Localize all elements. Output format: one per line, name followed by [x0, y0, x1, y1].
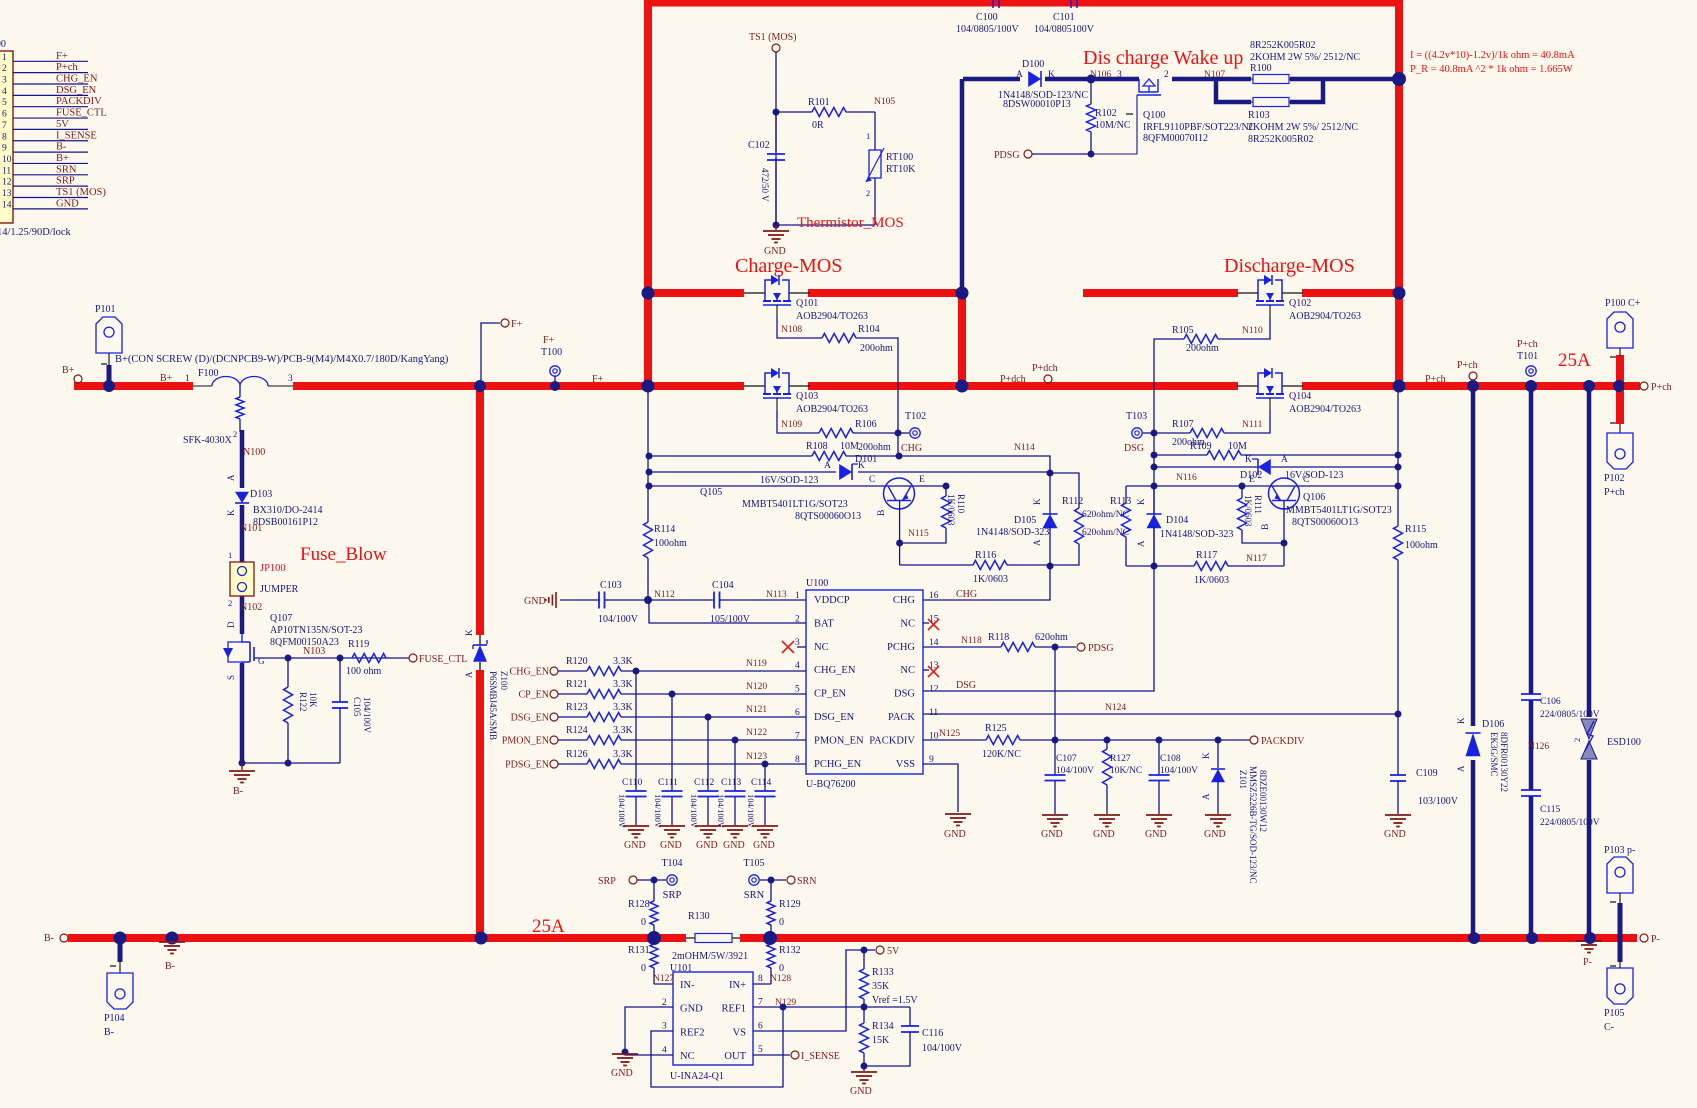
svg-text:R101: R101	[808, 97, 830, 108]
diode Z101 zener MMSZ5226B	[1217, 740, 1219, 768]
svg-text:5V: 5V	[56, 119, 69, 130]
capacitor C102 472/50V	[775, 112, 777, 152]
svg-text:8: 8	[758, 974, 763, 984]
svg-text:N125: N125	[939, 729, 960, 739]
wire navy riser x1531 (C106/C115 branch)	[1529, 386, 1534, 694]
resistor R106 200ohm gate Q103	[777, 410, 819, 433]
svg-text:R117: R117	[1196, 550, 1217, 561]
svg-text:PDSG: PDSG	[1088, 643, 1114, 654]
terminal P- right	[1640, 934, 1648, 942]
wire discharge-side node column x1154	[1153, 433, 1155, 566]
svg-text:1K/0603: 1K/0603	[973, 574, 1008, 585]
terminal PACKDIV	[1250, 736, 1258, 744]
capacitor C101	[1070, 0, 1072, 8]
svg-text:D103: D103	[250, 489, 272, 500]
svg-text:P6SMBJ45A/SMB: P6SMBJ45A/SMB	[488, 671, 498, 740]
svg-text:5: 5	[2, 98, 7, 108]
svg-text:GND: GND	[611, 1068, 633, 1079]
svg-text:C103: C103	[600, 580, 622, 591]
transistor Q100 IRFL9110	[1139, 79, 1158, 92]
svg-text:104/100V: 104/100V	[716, 794, 726, 829]
svg-text:PDSG: PDSG	[994, 150, 1020, 161]
svg-text:A: A	[1136, 540, 1146, 547]
svg-text:104/100V: 104/100V	[598, 614, 639, 625]
node B+ pad junction	[103, 380, 115, 392]
capacitor C106 224/0805/100V	[1521, 693, 1541, 695]
svg-text:R114: R114	[654, 524, 675, 535]
svg-text:R105: R105	[1172, 325, 1194, 336]
varistor SFK-4030X	[239, 386, 241, 397]
svg-text:F+: F+	[592, 374, 604, 385]
wire P103 to P105 navy stub	[1618, 903, 1623, 962]
no-connect X pin13	[923, 669, 929, 671]
svg-text:10M: 10M	[840, 441, 859, 452]
capacitor C103 104/100V	[560, 599, 599, 601]
svg-text:PMON_EN: PMON_EN	[814, 735, 864, 746]
svg-text:PCHG_EN: PCHG_EN	[814, 759, 862, 770]
capacitor C114 104/100V	[764, 764, 766, 791]
svg-text:SRN: SRN	[56, 164, 77, 175]
svg-text:2KOHM 2W 5%/ 2512/NC: 2KOHM 2W 5%/ 2512/NC	[1250, 52, 1360, 63]
no-connect X pin15	[923, 622, 929, 624]
wire Q106 base	[1283, 500, 1285, 566]
resistor R124 3.3K	[587, 736, 621, 745]
svg-text:DSG: DSG	[894, 689, 915, 700]
svg-text:CP_EN: CP_EN	[518, 690, 549, 701]
wire main B+ line from terminal to fuse	[74, 382, 193, 390]
svg-text:E: E	[1249, 475, 1255, 485]
svg-text:IN-: IN-	[680, 980, 695, 991]
svg-text:N110: N110	[1242, 326, 1263, 336]
svg-text:8QTS00060O13: 8QTS00060O13	[1292, 517, 1358, 528]
wire main F+/P+dch line	[808, 382, 1238, 390]
svg-text:A: A	[1016, 70, 1023, 80]
svg-text:A: A	[1281, 455, 1288, 465]
svg-text:0: 0	[779, 917, 784, 928]
svg-text:PACK: PACK	[888, 712, 915, 723]
svg-text:R102: R102	[1095, 108, 1117, 119]
svg-text:N102: N102	[240, 602, 262, 613]
svg-text:9: 9	[2, 144, 7, 154]
wire VS pin6 to 5V	[753, 950, 864, 1031]
svg-text:B: B	[877, 510, 887, 516]
svg-text:6: 6	[2, 110, 7, 120]
wire Q107 source gnd rail	[242, 762, 340, 764]
terminal PMON_EN input	[550, 736, 558, 744]
svg-text:A: A	[824, 461, 831, 471]
svg-text:R134: R134	[872, 1021, 894, 1032]
svg-text:N119: N119	[746, 659, 767, 669]
capacitor C107 104/100V	[1054, 740, 1056, 775]
svg-text:PACKDIV: PACKDIV	[1261, 736, 1305, 747]
wire GND pin2	[625, 1007, 673, 1052]
svg-text:GND: GND	[1145, 829, 1167, 840]
svg-text:Z100: Z100	[499, 671, 509, 690]
pad P102 P+ch	[1619, 424, 1621, 433]
svg-text:8R252K005R02: 8R252K005R02	[1248, 134, 1314, 145]
svg-text:GND: GND	[850, 1086, 872, 1097]
svg-text:D100: D100	[1022, 59, 1044, 70]
resistor R114 100ohm	[644, 522, 653, 558]
node main junctions	[642, 287, 655, 300]
svg-text:GND: GND	[660, 840, 682, 851]
ground C110 GND	[623, 825, 649, 827]
svg-text:B: B	[1261, 524, 1271, 530]
svg-text:R120: R120	[566, 656, 588, 667]
svg-text:100ohm: 100ohm	[654, 538, 687, 549]
capacitor C113 104/100V	[734, 740, 736, 791]
svg-text:10M/NC: 10M/NC	[1095, 120, 1131, 131]
svg-text:CHG_EN: CHG_EN	[56, 74, 98, 85]
svg-text:200ohm: 200ohm	[860, 343, 893, 354]
svg-text:B-: B-	[104, 1027, 114, 1038]
svg-text:GND: GND	[624, 840, 646, 851]
wire B+ top bus border	[648, 0, 1399, 7]
svg-text:8QTS00060O13: 8QTS00060O13	[795, 511, 861, 522]
svg-text:R133: R133	[872, 967, 894, 978]
svg-text:I = ((4.2v*10)-1.2v)/1k ohm =: I = ((4.2v*10)-1.2v)/1k ohm = 40.8mA	[1410, 50, 1575, 61]
svg-text:Dis charge Wake up: Dis charge Wake up	[1083, 47, 1243, 69]
node CP_EN cap branch	[669, 691, 676, 698]
terminal CP_EN input	[550, 690, 558, 698]
testpoint T103 DSG	[1143, 432, 1154, 434]
wire main F+ line fuse to right	[293, 382, 744, 390]
terminal PDSG pin14	[1055, 646, 1076, 648]
svg-text:2KOHM 2W 5%/ 2512/NC: 2KOHM 2W 5%/ 2512/NC	[1248, 122, 1358, 133]
svg-text:BAT: BAT	[814, 618, 834, 629]
svg-text:T102: T102	[905, 411, 926, 422]
svg-text:R103: R103	[1248, 110, 1270, 121]
svg-text:B-: B-	[165, 961, 175, 972]
svg-text:NC: NC	[814, 642, 829, 653]
resistor R125 120K PACKDIV net	[923, 739, 986, 741]
svg-text:1K/0603: 1K/0603	[1194, 575, 1229, 586]
svg-text:R108: R108	[806, 441, 828, 452]
svg-text:TS1 (MOS): TS1 (MOS)	[56, 187, 106, 198]
svg-text:100ohm: 100ohm	[1405, 540, 1438, 551]
svg-text:Q105: Q105	[700, 487, 722, 498]
wire P104 stub	[118, 938, 123, 962]
svg-text:K: K	[464, 629, 474, 636]
svg-text:1: 1	[185, 374, 190, 384]
ground thermistor GND	[775, 225, 777, 230]
resistor R107 200ohm gate Q104	[1224, 410, 1270, 433]
svg-text:1K/0603: 1K/0603	[946, 494, 956, 526]
svg-text:DSG: DSG	[956, 680, 976, 691]
svg-text:J100: J100	[0, 39, 6, 50]
svg-text:A: A	[1032, 539, 1042, 546]
wire gate node N103	[288, 657, 409, 659]
testpoint T102 CHG	[898, 432, 909, 434]
wire navy riser x1473 (D106 branch)	[1471, 386, 1476, 726]
ground C113 GND	[722, 825, 748, 827]
svg-text:R128: R128	[628, 899, 650, 910]
svg-text:120K/NC: 120K/NC	[982, 749, 1021, 760]
svg-text:SRP: SRP	[56, 176, 75, 187]
svg-text:CHG_EN: CHG_EN	[814, 665, 856, 676]
svg-text:3.3K: 3.3K	[613, 679, 634, 690]
wire Charge-MOS top rail right	[808, 289, 962, 297]
terminal PDSG wake	[1024, 150, 1032, 158]
svg-text:ESD100: ESD100	[1607, 737, 1641, 748]
svg-text:100 ohm: 100 ohm	[346, 666, 382, 677]
wire F+ red vertical down to B- upper	[476, 386, 484, 635]
resistor R128 0	[653, 880, 655, 901]
resistor R111 1K/0603	[1241, 486, 1243, 498]
svg-text:6: 6	[758, 1021, 763, 1031]
node PDSG_EN cap branch	[762, 761, 769, 768]
svg-text:B-: B-	[233, 786, 243, 797]
resistor R113 620ohm/NC	[1125, 486, 1127, 503]
connector J100	[0, 51, 13, 223]
terminal P+dch	[1044, 375, 1052, 383]
svg-text:4: 4	[2, 87, 7, 97]
svg-text:R106: R106	[855, 419, 877, 430]
svg-text:8: 8	[2, 132, 7, 142]
svg-text:R119: R119	[348, 639, 369, 650]
svg-text:GND: GND	[753, 840, 775, 851]
svg-text:GND: GND	[1204, 829, 1226, 840]
svg-text:C100: C100	[976, 12, 998, 23]
svg-text:P_R = 40.8mA ^2 * 1k ohm = 1.6: P_R = 40.8mA ^2 * 1k ohm = 1.665W	[1410, 64, 1573, 75]
svg-text:R123: R123	[566, 702, 588, 713]
svg-text:GND: GND	[680, 1004, 703, 1015]
capacitor C104 105/100V	[648, 599, 714, 601]
svg-text:P+dch: P+dch	[1000, 374, 1026, 385]
svg-text:R125: R125	[985, 723, 1007, 734]
svg-text:P+ch: P+ch	[1604, 487, 1625, 498]
resistor R112 620ohm/NC	[1050, 473, 1079, 508]
svg-text:N116: N116	[1176, 473, 1197, 483]
svg-text:N101: N101	[240, 523, 262, 534]
capacitor C116 104/100V	[909, 1007, 911, 1026]
svg-text:R131: R131	[628, 945, 650, 956]
svg-text:MMBT5401LT1G/SOT23: MMBT5401LT1G/SOT23	[742, 499, 848, 510]
svg-text:16V/SOD-123: 16V/SOD-123	[760, 475, 818, 486]
resistor R116 1K/0603	[900, 564, 973, 566]
wire Discharge-MOS top rail left	[1083, 289, 1238, 297]
node riser junctions on P+ch line	[1583, 380, 1595, 392]
svg-text:8QFM00070I12: 8QFM00070I12	[1143, 133, 1208, 144]
svg-text:C110: C110	[622, 778, 642, 788]
svg-text:VS: VS	[733, 1027, 747, 1038]
svg-text:10M: 10M	[1228, 441, 1247, 452]
svg-text:SRN: SRN	[744, 890, 765, 901]
svg-text:DSG_EN: DSG_EN	[814, 712, 855, 723]
svg-text:Discharge-MOS: Discharge-MOS	[1224, 255, 1355, 277]
svg-text:N122: N122	[746, 728, 767, 738]
svg-text:B+(CON SCREW (D)/(DCNPCB9-W)/P: B+(CON SCREW (D)/(DCNPCB9-W)/PCB-9(M4)/M…	[115, 354, 449, 365]
ground C114 GND	[752, 825, 778, 827]
svg-text:R109: R109	[1190, 441, 1212, 452]
svg-text:PMON_EN: PMON_EN	[502, 736, 549, 747]
svg-text:2: 2	[1164, 70, 1169, 80]
svg-text:NC: NC	[900, 618, 915, 629]
capacitor C109 103/100V	[1397, 714, 1399, 775]
svg-text:FUSE_CTL: FUSE_CTL	[419, 654, 467, 665]
svg-text:N108: N108	[781, 325, 802, 335]
svg-text:GND: GND	[1041, 829, 1063, 840]
diode D100 1N4148	[1028, 71, 1041, 87]
esd suppressor ESD100	[1581, 719, 1597, 739]
svg-text:R100: R100	[1250, 63, 1272, 74]
svg-text:104/0805100V: 104/0805100V	[1034, 24, 1095, 35]
wire left red vertical F+ riser	[644, 0, 652, 386]
svg-text:3.3K: 3.3K	[613, 725, 634, 736]
ground U101 GND	[612, 1053, 638, 1055]
node wake-up net joins P+ bus	[1392, 72, 1406, 86]
svg-text:C105: C105	[352, 697, 362, 717]
resistor R123 3.3K	[587, 713, 621, 722]
terminal F+ stub	[481, 323, 500, 386]
svg-text:12: 12	[2, 178, 12, 188]
svg-text:D101: D101	[855, 454, 877, 465]
svg-text:U-BQ76200: U-BQ76200	[806, 779, 855, 790]
svg-text:C104: C104	[712, 580, 734, 591]
svg-text:R118: R118	[988, 632, 1009, 643]
svg-text:R122: R122	[298, 692, 308, 712]
wire Q105 base to N115	[899, 500, 901, 565]
transistor Q101 AOB2904	[744, 292, 765, 294]
resistor R109 10M line	[1154, 454, 1207, 456]
svg-text:FUSE_CTL: FUSE_CTL	[56, 108, 107, 119]
wire RT100 to gnd rail	[874, 178, 876, 225]
jumper JP100	[230, 562, 254, 596]
ground C107 GND	[1042, 814, 1068, 816]
svg-text:Q106: Q106	[1303, 492, 1325, 503]
svg-text:200ohm: 200ohm	[858, 442, 891, 453]
wire BAT pin2	[649, 600, 806, 623]
wire PACK N124 net	[923, 713, 1398, 715]
ground R134 GND	[863, 1066, 865, 1071]
svg-text:REF2: REF2	[680, 1027, 705, 1038]
svg-text:P+ch: P+ch	[1457, 360, 1478, 371]
svg-text:Vref =1.5V: Vref =1.5V	[872, 995, 918, 1006]
svg-text:R129: R129	[779, 899, 801, 910]
resistor R119 100ohm	[352, 654, 386, 663]
wire Q107 source to ground	[240, 663, 245, 763]
resistor R131 0	[653, 938, 655, 944]
svg-text:N115: N115	[908, 529, 929, 539]
svg-text:4: 4	[662, 1045, 667, 1055]
svg-text:Q104: Q104	[1289, 391, 1311, 402]
svg-text:12: 12	[929, 685, 939, 695]
svg-text:C102: C102	[748, 140, 770, 151]
svg-text:13: 13	[929, 661, 939, 671]
svg-text:3.3K: 3.3K	[613, 702, 634, 713]
svg-text:1: 1	[2, 53, 7, 63]
svg-text:AOB2904/TO263: AOB2904/TO263	[1289, 404, 1361, 415]
node CHG_EN cap branch	[633, 668, 640, 675]
wire F+ red vertical down to B- lower	[476, 670, 484, 938]
svg-text:3.3K: 3.3K	[613, 656, 634, 667]
svg-text:K: K	[1048, 70, 1055, 80]
svg-text:10K/NC: 10K/NC	[1110, 766, 1142, 776]
svg-text:104/100V: 104/100V	[1056, 766, 1094, 776]
svg-text:3: 3	[662, 1022, 667, 1032]
wire REF1 pin7	[753, 1006, 910, 1008]
svg-text:25A: 25A	[532, 916, 565, 937]
node PMON_EN cap branch	[732, 737, 739, 744]
svg-text:I_SENSE: I_SENSE	[801, 1051, 840, 1062]
svg-text:F+: F+	[543, 335, 555, 346]
terminal P+ch stub	[1467, 380, 1479, 392]
svg-text:14: 14	[2, 200, 12, 210]
svg-text:K: K	[1136, 498, 1146, 505]
svg-text:A: A	[226, 474, 236, 481]
svg-text:K: K	[1245, 455, 1252, 465]
svg-text:Thermistor_MOS: Thermistor_MOS	[797, 215, 904, 231]
svg-text:11: 11	[2, 166, 11, 176]
svg-text:N117: N117	[1246, 554, 1267, 564]
capacitor C105 104/100V	[339, 658, 341, 702]
svg-text:C112: C112	[694, 778, 714, 788]
svg-text:P105: P105	[1604, 1008, 1625, 1019]
svg-text:A: A	[464, 671, 474, 678]
svg-text:EK3G/SMC: EK3G/SMC	[1489, 732, 1499, 777]
svg-text:3.3K: 3.3K	[613, 749, 634, 760]
svg-text:PACKDIV: PACKDIV	[869, 735, 915, 746]
svg-text:8R252K005R02: 8R252K005R02	[1250, 40, 1316, 51]
svg-text:N112: N112	[654, 590, 675, 600]
resistor R100 2512	[1253, 75, 1289, 84]
svg-text:2: 2	[228, 598, 232, 608]
resistor R132 0	[770, 938, 772, 944]
svg-text:A: A	[1456, 765, 1466, 772]
svg-text:GND: GND	[524, 596, 546, 607]
wire B- bottom rail right	[740, 934, 1637, 942]
wire CHG net up from U100	[923, 565, 1050, 600]
diode D101 16V/SOD-123	[649, 471, 836, 473]
node DSG_EN cap branch	[705, 714, 712, 721]
svg-text:C106: C106	[1540, 697, 1561, 707]
terminal P+ch right	[1624, 384, 1638, 388]
svg-text:AP10TN135N/SOT-23: AP10TN135N/SOT-23	[270, 625, 362, 636]
svg-text:RT10K: RT10K	[886, 164, 916, 175]
svg-text:1: 1	[228, 550, 232, 560]
svg-text:CP_EN: CP_EN	[814, 689, 847, 700]
svg-text:C108: C108	[1160, 754, 1181, 764]
svg-text:0R: 0R	[812, 120, 824, 131]
node F+ junction	[474, 380, 486, 392]
svg-text:K: K	[226, 509, 236, 516]
svg-text:GND: GND	[56, 198, 79, 209]
svg-text:R121: R121	[566, 679, 588, 690]
svg-text:A: A	[1201, 793, 1211, 800]
svg-text:472/50 V: 472/50 V	[760, 168, 770, 202]
wire NC pin4	[625, 1054, 673, 1056]
capacitor C100	[992, 0, 994, 8]
svg-text:N103: N103	[303, 646, 325, 657]
svg-text:P+ch: P+ch	[56, 62, 78, 73]
svg-text:35K: 35K	[872, 981, 890, 992]
svg-text:200ohm: 200ohm	[1186, 343, 1219, 354]
wire charge pump vertical x962	[960, 79, 965, 293]
svg-text:2: 2	[233, 429, 237, 439]
svg-text:CHG: CHG	[956, 589, 977, 600]
resistor R102 10M	[1090, 79, 1092, 104]
svg-text:AOB2904/TO263: AOB2904/TO263	[1289, 311, 1361, 322]
resistor R127 10K/NC	[1106, 740, 1108, 749]
svg-text:N123: N123	[746, 752, 767, 762]
svg-text:15K: 15K	[872, 1035, 890, 1046]
svg-text:4: 4	[795, 661, 800, 671]
svg-text:OUT: OUT	[724, 1051, 746, 1062]
svg-text:Q103: Q103	[796, 391, 818, 402]
ground C109 GND	[1385, 814, 1411, 816]
svg-text:C116: C116	[922, 1028, 943, 1039]
svg-text:104/0805/100V: 104/0805/100V	[956, 24, 1020, 35]
